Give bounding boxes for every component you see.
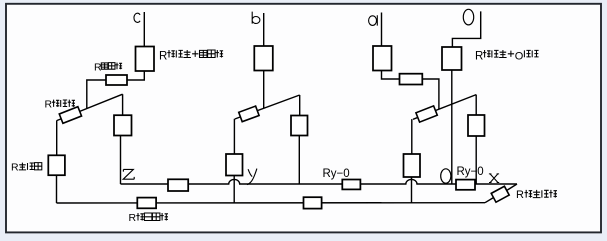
resistor b mid <box>291 116 308 136</box>
resistor a mid <box>468 115 485 136</box>
wire b diagonal low end vertical <box>233 119 235 154</box>
resistor a lap joint (tilted) <box>416 106 437 122</box>
wire copper bar to a diagonal junction <box>422 79 439 109</box>
resistor R lap joint (c, tilted) <box>59 107 81 124</box>
resistor a top <box>373 46 392 71</box>
svg-text:R: R <box>129 212 137 224</box>
resistor b top <box>254 46 272 71</box>
node letter z <box>123 169 134 179</box>
resistor R lug+copper bar (c phase top) <box>136 47 155 72</box>
svg-text:Ry−0: Ry−0 <box>323 168 350 180</box>
wire diagonals to solder-joint resistor <box>485 184 517 203</box>
resistor R solder joint (tilted) <box>491 186 509 202</box>
svg-text:Ry−0: Ry−0 <box>457 166 484 178</box>
resistor R lug + O lead wire <box>442 47 462 70</box>
node letter x <box>489 174 499 183</box>
wire b mid down to phase line <box>298 136 300 185</box>
wire a-box to copper-bar resistor <box>382 71 400 80</box>
svg-text:R: R <box>516 189 524 201</box>
resistor c mid <box>114 115 132 135</box>
terminal label c <box>134 13 140 22</box>
wire b terminal lead <box>263 13 265 46</box>
wire a diagonal low end vertical <box>411 119 413 154</box>
wire c mid down to node z <box>120 136 122 185</box>
wire z-y-x phase line with hops at y and x <box>121 179 518 184</box>
node letter y <box>247 169 257 185</box>
terminal label O <box>463 9 473 25</box>
resistor Ry-0 right <box>456 180 475 190</box>
resistor at node x (a low) <box>404 154 421 177</box>
wire x-box to bottom bus <box>411 177 413 203</box>
wire b peak vertical <box>299 95 301 116</box>
wire half coil to bottom bus <box>56 175 58 203</box>
wire bottom interphase bus <box>57 202 486 204</box>
resistor R half coil <box>48 155 65 175</box>
svg-text:R: R <box>475 50 483 62</box>
wire c diagonal low end vertical <box>56 120 58 155</box>
resistor at node y (b low) <box>226 154 243 176</box>
resistor R copper bar (c) <box>106 75 127 85</box>
wire O terminal lead with step <box>452 11 480 47</box>
wire c terminal lead <box>143 12 145 47</box>
resistor R interphase <box>137 198 156 209</box>
wire a mid down to Ry-0 right end <box>475 136 477 184</box>
terminal label b <box>252 12 260 24</box>
svg-text:R: R <box>45 99 53 111</box>
wire copper bar to c diagonal junction <box>87 80 106 109</box>
resistor bottom right <box>304 197 322 208</box>
wire c diagonal <box>57 94 123 120</box>
wire a terminal lead <box>381 13 383 47</box>
wire O box long vertical to phase line <box>451 70 453 184</box>
wire y-box to bottom bus <box>233 176 235 204</box>
wire a diagonal <box>413 95 476 120</box>
svg-text:R: R <box>11 162 19 174</box>
resistor Ry-0 left <box>342 180 360 190</box>
svg-text:R: R <box>159 50 167 62</box>
svg-text:O: O <box>515 50 524 62</box>
resistor on z-y segment <box>168 179 188 191</box>
resistor b lap joint (tilted) <box>239 106 259 122</box>
node 0 ellipse on phase line <box>441 169 451 183</box>
wire b-box down to diagonal <box>263 71 265 109</box>
terminal label a <box>369 15 378 25</box>
wire c peak vertical <box>122 94 124 115</box>
wire c-box bottom to copper-bar resistor <box>127 71 144 80</box>
wire b diagonal <box>235 95 300 119</box>
wire a peak vertical <box>475 95 477 115</box>
resistor R copper bar (a) <box>400 74 423 85</box>
